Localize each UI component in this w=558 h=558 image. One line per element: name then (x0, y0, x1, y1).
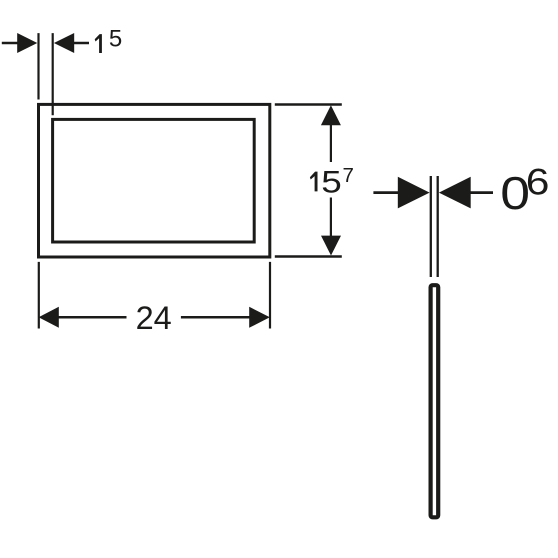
front view outer rectangle (39, 104, 270, 257)
dimension 15-7 up arrowhead (321, 105, 341, 125)
dimension 0-6 left arrowhead (398, 177, 430, 209)
dimension label 1 (95, 34, 102, 53)
svg-text:6: 6 (526, 162, 550, 203)
dimension 0-6 right arrowhead (439, 177, 471, 209)
dimension 24 left extension line (38, 262, 40, 329)
svg-text:5: 5 (321, 165, 341, 200)
side view thin plate (431, 285, 439, 517)
dimension 0-6 left extension line (430, 176, 432, 277)
dimension 15-7 top extension line (275, 103, 342, 105)
dimension 24 right line segment (181, 316, 251, 319)
dimension 1-5 left tail line (2, 42, 19, 45)
dimension 24 right arrowhead (249, 307, 270, 328)
dimension 0-6 right tail line (469, 191, 493, 194)
dimension 0-6 right extension line (437, 176, 439, 277)
front view inner rectangle (frame) (53, 119, 255, 242)
dimension 1-5 extension line left (37, 33, 39, 99)
dimension 1-5 left arrowhead (17, 33, 37, 53)
dimension 1-5 right tail line (73, 42, 89, 45)
dimension 24 right extension line (269, 262, 271, 329)
svg-text:7: 7 (343, 164, 354, 187)
dimension 24 left arrowhead (39, 307, 59, 328)
dimension 15-7 down arrowhead (321, 236, 341, 256)
svg-text:24: 24 (136, 300, 172, 336)
dimension 15-7 upper dimension line segment (330, 124, 332, 162)
svg-text:5: 5 (109, 26, 122, 53)
dimension 15-7 lower dimension line segment (330, 198, 332, 237)
dimension 1-5 extension line right (52, 33, 54, 115)
dimension 0-6 left tail line (373, 191, 399, 194)
dimension 15-7 bottom extension line (275, 255, 342, 257)
dimension label 15 (310, 172, 318, 192)
dimension 1-5 right arrowhead (54, 33, 74, 53)
dimension 24 left line segment (57, 316, 127, 319)
